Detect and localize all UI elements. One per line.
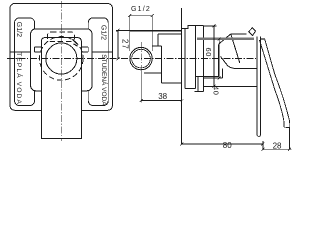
svg-text:38: 38 xyxy=(158,92,167,101)
svg-text:28: 28 xyxy=(273,142,282,151)
svg-text:G1/2: G1/2 xyxy=(131,6,151,13)
svg-text:STUDENÁ VODA: STUDENÁ VODA xyxy=(100,54,109,106)
svg-text:27: 27 xyxy=(120,39,129,50)
svg-text:40: 40 xyxy=(212,86,221,95)
svg-text:60: 60 xyxy=(204,48,213,57)
svg-text:TEPLÁ VODA: TEPLÁ VODA xyxy=(15,52,24,105)
svg-text:G1/2: G1/2 xyxy=(100,25,107,40)
svg-text:G1/2: G1/2 xyxy=(15,22,22,37)
svg-text:80: 80 xyxy=(223,141,232,150)
